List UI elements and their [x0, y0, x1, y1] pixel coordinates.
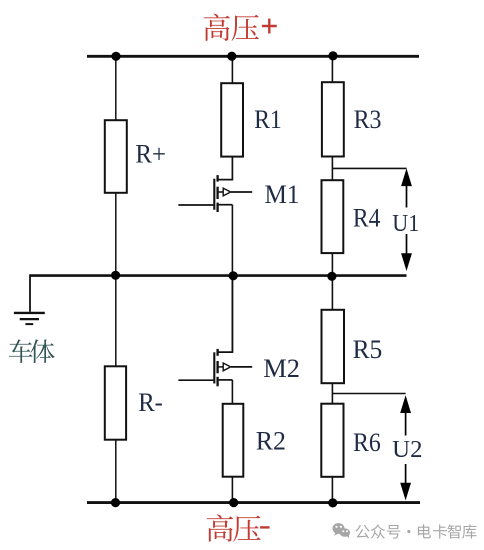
- svg-text:M2: M2: [263, 353, 300, 383]
- svg-text:R6: R6: [353, 427, 381, 457]
- svg-text:R4: R4: [353, 202, 381, 232]
- svg-text:U1: U1: [392, 210, 419, 237]
- svg-text:M1: M1: [265, 179, 300, 209]
- svg-text:R5: R5: [353, 334, 383, 364]
- svg-text:R-: R-: [138, 387, 163, 417]
- svg-text:R1: R1: [254, 104, 282, 134]
- svg-text:R2: R2: [256, 426, 286, 456]
- svg-text:R+: R+: [135, 139, 166, 169]
- svg-text:U2: U2: [392, 436, 422, 463]
- svg-text:R3: R3: [354, 104, 382, 134]
